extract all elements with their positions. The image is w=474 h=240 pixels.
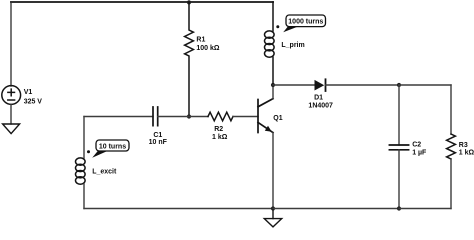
svg-text:1 kΩ: 1 kΩ (459, 150, 474, 157)
annotation bubble 10 turns (92, 140, 129, 158)
wire C2 node to right corner (399, 84, 451, 86)
node junction top of R1 (187, 0, 191, 4)
svg-text:L_prim: L_prim (281, 42, 304, 49)
resistor R1 (185, 2, 194, 117)
wire right vertical down to R3 (450, 85, 452, 134)
transistor Q1 (258, 99, 273, 133)
svg-text:100 kΩ: 100 kΩ (196, 45, 220, 52)
svg-text:V1: V1 (24, 89, 33, 96)
capacitor C1 (153, 107, 158, 126)
wire R3 bottom lead (450, 159, 452, 209)
wire bottom rail left segment (84, 208, 273, 210)
inductor L_prim (265, 2, 275, 85)
svg-text:L_excit: L_excit (92, 168, 117, 175)
node junction C2 bottom (397, 206, 401, 210)
resistor R3 (447, 134, 456, 159)
capacitor C2 (389, 145, 408, 150)
wire top horizontal (11, 1, 273, 3)
wire V1 bottom to ground (10, 105, 12, 125)
inductor L_excit (76, 158, 86, 184)
ground under V1 (3, 124, 20, 134)
wire node to D1 anode (273, 84, 315, 86)
phase dot L_excit (87, 150, 90, 153)
svg-text:1 kΩ: 1 kΩ (212, 134, 228, 141)
svg-text:325 V: 325 V (24, 99, 43, 106)
svg-text:R1: R1 (196, 36, 205, 43)
wire emitter down to rail (272, 133, 274, 209)
svg-text:10 turns: 10 turns (99, 143, 126, 150)
node junction C2 top (397, 83, 401, 87)
wire collector up to node (272, 85, 274, 99)
wire left vertical (V1 top to top-left corner) (10, 2, 12, 86)
svg-text:1N4007: 1N4007 (308, 103, 333, 110)
wire C1 to R2 (through R1 node) (158, 116, 208, 118)
svg-text:10 nF: 10 nF (149, 139, 168, 146)
svg-text:1 µF: 1 µF (412, 149, 427, 156)
node junction R1 bottom / base net (187, 114, 191, 118)
voltage source V1 (2, 86, 21, 105)
svg-text:C1: C1 (153, 132, 162, 139)
node junction collector / L_prim / D1 (271, 83, 275, 87)
wire bottom rail right segment (399, 208, 451, 210)
ground under Q1 emitter (264, 209, 281, 227)
diode D1 (315, 79, 326, 91)
svg-text:D1: D1 (314, 95, 323, 102)
svg-text:R2: R2 (214, 126, 223, 133)
wire base net: left loop corner to C1 (84, 116, 153, 118)
svg-text:1000 turns: 1000 turns (288, 19, 323, 26)
node junction emitter / rail / ground (271, 206, 275, 210)
annotation bubble 1000 turns (283, 15, 325, 32)
svg-text:Q1: Q1 (273, 115, 282, 122)
wire C2 top lead (398, 85, 400, 145)
svg-text:C2: C2 (412, 142, 421, 149)
resistor R2 (208, 112, 233, 121)
wire R2 to Q1 base (233, 116, 258, 118)
wire D1 cathode to C2 node (326, 84, 400, 86)
wire left loop vertical (C1 corner down to L_excit) (83, 117, 85, 159)
wire bottom rail middle segment (273, 208, 399, 210)
wire L_excit bottom lead (83, 184, 85, 208)
svg-text:R3: R3 (459, 142, 468, 149)
phase dot L_prim (276, 25, 279, 28)
wire C2 bottom lead (398, 150, 400, 209)
